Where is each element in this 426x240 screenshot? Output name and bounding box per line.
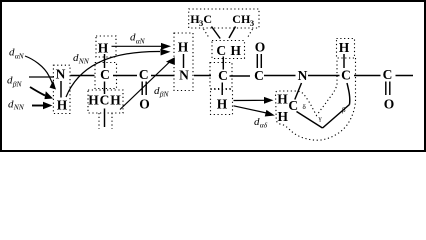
- svg-text:βN: βN: [12, 80, 23, 89]
- label d_betaN (left middle): [7, 75, 22, 89]
- beta methylene H C H residue 1: [88, 93, 121, 108]
- bond C'3 tail to right: [396, 75, 414, 77]
- methyl CH3 residue 2: [232, 12, 254, 28]
- dotted connector CH3 box to beta CH box: [247, 29, 253, 39]
- residue 1 dotted box around beta HCH: [88, 90, 123, 113]
- bond Calpha1-Cbeta1: [104, 82, 106, 95]
- svg-text:N: N: [298, 68, 308, 83]
- arrow leader from d_alphaN to NH of residue 1: [25, 56, 58, 92]
- label d_alphaN (top middle): [130, 32, 146, 46]
- svg-text:αN: αN: [15, 51, 25, 60]
- dotted connector H3C box to beta CH box: [204, 29, 210, 39]
- bond N2-Calpha2: [194, 75, 211, 77]
- double bond C'1=O1: [142, 82, 146, 96]
- svg-text:H: H: [57, 97, 68, 112]
- bond Calpha1-C'1: [113, 75, 137, 77]
- bond H3C-Cbeta2: [212, 27, 221, 39]
- bond N3-Cdelta: [295, 83, 302, 100]
- curved arrow d_betaN from Hbeta1 to NH2: [120, 55, 179, 109]
- svg-text:H: H: [88, 93, 99, 108]
- label d_NN (middle): [73, 52, 90, 66]
- svg-text:C: C: [203, 12, 212, 26]
- bold arrow d_NN to NH residue 1: [32, 102, 53, 109]
- bond Cbeta2-Calpha2: [222, 57, 224, 70]
- residue 1 dotted box around alpha H: [96, 36, 116, 57]
- svg-text:C: C: [232, 12, 241, 26]
- residue 1 spin-system dotted box around N and H: [53, 65, 70, 113]
- svg-text:C: C: [216, 43, 226, 58]
- bond Cgamma-Cbeta: [323, 105, 350, 129]
- svg-text:C: C: [383, 67, 393, 82]
- label d_betaN (middle right): [154, 85, 169, 99]
- svg-text:C: C: [100, 67, 110, 82]
- svg-text:H: H: [98, 40, 109, 55]
- svg-text:O: O: [139, 97, 150, 112]
- bond N3-Calpha3: [308, 75, 340, 77]
- label d_alphadelta: [254, 116, 268, 130]
- bond H2-N2: [183, 54, 185, 68]
- svg-text:H: H: [277, 91, 288, 106]
- bond C'1-N2: [151, 75, 175, 77]
- residue 2 dotted box around both methyls: [189, 9, 259, 28]
- bond Halpha1-Calpha1: [104, 54, 106, 68]
- bond N1-H1: [60, 81, 62, 98]
- residue 2 dotted box around H and N: [174, 33, 193, 91]
- residue 1 dotted sleeve continuing down: [99, 113, 112, 129]
- residue 2 dotted box around alpha C: [210, 63, 232, 89]
- label d_alphaN (left top): [9, 46, 25, 60]
- svg-text:αN: αN: [136, 37, 146, 46]
- residue 3 dotted box around alpha H: [337, 39, 355, 59]
- bond Calpha3-C'3: [354, 75, 381, 77]
- bond Cbeta1 side chain continuing down: [104, 109, 106, 128]
- svg-text:3: 3: [250, 18, 254, 28]
- svg-text:C: C: [139, 67, 149, 82]
- svg-text:O: O: [255, 39, 266, 54]
- bold arrow d_betaN to NH residue 1: [30, 87, 54, 103]
- svg-text:H: H: [178, 39, 189, 54]
- svg-text:N: N: [56, 66, 66, 81]
- methyl H3C residue 2: [190, 12, 212, 28]
- svg-text:C: C: [288, 98, 298, 113]
- svg-text:αδ: αδ: [260, 121, 268, 130]
- svg-text:γ: γ: [318, 115, 322, 123]
- beta C H residue 2: [216, 43, 241, 58]
- double bond C'3=O3: [386, 82, 390, 96]
- svg-text:C: C: [100, 93, 110, 108]
- svg-text:C: C: [218, 68, 228, 83]
- bond Calpha2-C'2: [230, 75, 251, 77]
- residue 1 dotted box around alpha C: [95, 63, 117, 89]
- svg-text:O: O: [384, 97, 395, 112]
- bond Halpha3-Calpha3: [343, 54, 345, 68]
- svg-text:N: N: [179, 67, 189, 82]
- svg-text:H: H: [217, 97, 228, 112]
- arrow d_alphadelta upper from Halpha2 to Hdelta1: [234, 97, 274, 104]
- arrow d_alphaN from Halpha1 to NH2: [112, 43, 172, 50]
- svg-text:H: H: [339, 40, 350, 55]
- double bond C'2=O2: [257, 54, 261, 68]
- svg-text:H: H: [110, 93, 121, 108]
- svg-text:NN: NN: [78, 57, 90, 66]
- svg-text:H: H: [278, 109, 289, 124]
- svg-text:C: C: [254, 68, 264, 83]
- arrow leader line from d_betaN: [29, 76, 54, 78]
- arrow d_alphadelta lower from Halpha2 to Hdelta2: [234, 106, 276, 119]
- label d_NN (left bottom): [8, 99, 25, 112]
- bond Cbeta-Calpha3: [347, 83, 350, 105]
- svg-text:C: C: [341, 68, 351, 83]
- svg-text:NN: NN: [13, 103, 25, 112]
- svg-text:H: H: [231, 43, 242, 58]
- bond Calpha2-Halpha2: [221, 83, 223, 96]
- residue 3 dotted spin-system outline around ring: [276, 58, 356, 140]
- bond Cdelta-Cgamma: [297, 112, 323, 129]
- residue 2 dotted box around alpha H: [211, 90, 233, 115]
- svg-text:βN: βN: [159, 90, 170, 99]
- bond N1-Calpha1: [71, 75, 95, 77]
- curved arrow d_NN from H1 to NH2: [66, 48, 171, 97]
- bond CH3-Cbeta2: [229, 27, 236, 39]
- bond C'2-N3: [264, 75, 296, 77]
- residue 2 dotted box around beta CH: [212, 41, 245, 59]
